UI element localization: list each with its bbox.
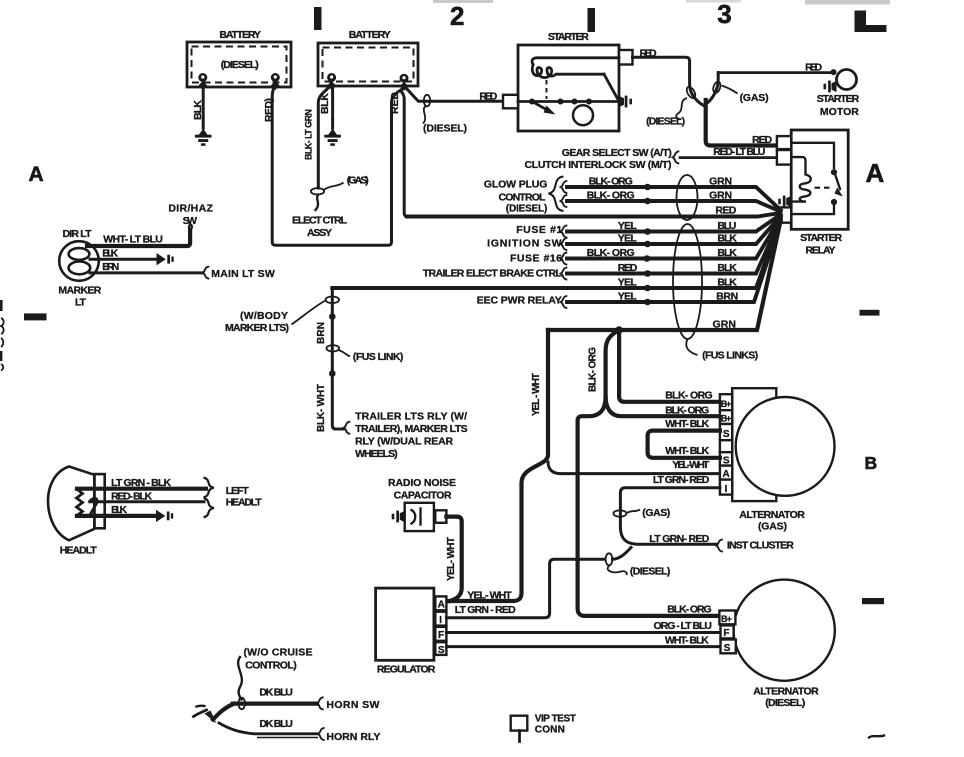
svg-text:GRN: GRN [709,176,732,188]
loop w/body marker lts [326,297,340,304]
regulator pin F [435,627,446,641]
wire LT GRN-RED alternator I [620,488,720,544]
wire row R2 glow plug GRN [561,195,568,207]
svg-text:(GAS): (GAS) [347,175,369,187]
starter input tab [503,95,518,109]
wire row R1 glow plug GRN [561,181,568,193]
gas alternator pin S 2 [720,452,732,465]
svg-text:YEL- WHT: YEL- WHT [672,459,710,471]
svg-text:STARTER: STARTER [817,93,860,105]
wire RED-BLK headlight [90,500,204,503]
svg-text:ASSY: ASSY [307,227,332,239]
VIP test connector [511,714,576,742]
svg-text:RED: RED [805,62,822,74]
wire WHT-BLK S loop [648,431,720,458]
gas alternator pin blank [720,440,732,452]
brace left headlt [204,478,214,498]
svg-text:BATTERY: BATTERY [349,29,391,41]
svg-text:YEL: YEL [618,291,638,303]
battery B2 negative terminal [327,73,336,90]
relay blade [836,176,841,190]
svg-text:WHT- BLK: WHT- BLK [665,445,709,457]
svg-text:B+: B+ [721,399,732,409]
svg-text:CONTROL): CONTROL) [245,660,297,672]
svg-text:RED: RED [752,134,772,146]
capacitor symbol [412,510,416,524]
wire WHT-LT BLU to dir/haz sw [87,230,190,246]
svg-text:GLOW PLUG: GLOW PLUG [484,179,548,191]
right margin dash 2 [862,598,884,604]
svg-text:DIR LT: DIR LT [63,228,93,240]
svg-text:RLY (W/DUAL REAR: RLY (W/DUAL REAR [355,436,453,448]
svg-text:A: A [29,163,44,186]
svg-text:BLK: BLK [717,262,737,274]
loop (GAS) on branch [712,81,722,94]
loop on horn wire [238,698,245,710]
relay internal battery line [791,143,834,168]
relay dashed link [815,187,832,189]
wire YEL-WHT from capacitor [446,517,461,601]
diesel alternator pin F [721,625,734,638]
svg-text:RADIO NOISE: RADIO NOISE [388,477,456,489]
svg-text:YEL: YEL [618,277,638,289]
wire regulator F ORG-LT BLU [446,631,720,634]
svg-text:BLK- ORG: BLK- ORG [667,604,712,616]
trunk YEL-WHT vertical [446,330,548,601]
svg-text:BRN: BRN [102,261,119,273]
svg-text:(W/BODY: (W/BODY [240,310,288,322]
svg-text:ALTERNATOR: ALTERNATOR [753,686,819,698]
wire row R8 marker lights BLK [332,220,780,288]
svg-text:YEL- WHT: YEL- WHT [446,537,457,581]
svg-text:RED- BLK: RED- BLK [111,491,152,503]
svg-text:IGNITION SW: IGNITION SW [487,238,562,250]
starter motor [837,70,857,90]
relay tab output [777,207,791,222]
svg-text:(W/O CRUISE: (W/O CRUISE [244,647,313,659]
headlight dome [48,467,94,541]
gas alternator [720,388,835,532]
trunk BLK-ORG branch to diesel alternator [578,398,720,616]
svg-text:BLK- ORG: BLK- ORG [587,247,635,259]
svg-text:GRN: GRN [709,190,732,202]
svg-text:2: 2 [450,1,464,31]
svg-text:DK BLU: DK BLU [259,718,293,730]
svg-text:LT GRN - RED: LT GRN - RED [455,604,516,616]
svg-text:WHEELS): WHEELS) [355,448,398,460]
svg-text:BLK: BLK [102,248,118,260]
svg-text:A: A [723,469,730,480]
starter motor winding circle [573,105,593,125]
svg-text:F: F [723,628,729,639]
wire LT GRN-BLK headlight [77,487,206,491]
svg-text:FUSE #1: FUSE #1 [516,224,562,236]
battery B1 ground wire BLK [202,85,205,128]
svg-text:HEADLT: HEADLT [60,545,98,557]
trunk BLK-ORG to gas alternator B+1 [619,330,720,402]
svg-text:VIP TEST: VIP TEST [535,714,576,725]
wire DK BLU horn rly [219,723,318,734]
loop (GAS) on I wire [613,510,626,516]
svg-text:WHT- BLK: WHT- BLK [665,418,709,430]
regulator pin S [435,642,446,655]
svg-text:BATTERY: BATTERY [219,29,261,41]
chassis connector at relay coil [778,196,791,208]
svg-text:CLUTCH INTERLOCK SW (M/T): CLUTCH INTERLOCK SW (M/T) [525,159,672,171]
wire RED-LT BLU to relay switch tab [680,156,777,159]
svg-text:ORG - LT BLU: ORG - LT BLU [654,620,713,632]
svg-text:LT: LT [75,297,87,309]
wire RED starter output [633,57,704,105]
branch YEL-WHT to alternator A [548,462,720,474]
svg-text:B: B [865,453,878,473]
fusible link ellipse small [677,175,698,220]
svg-text:ALTERNATOR: ALTERNATOR [739,509,805,521]
left edge stray glyphs [0,300,3,311]
wire BLK-LT GRN to elect ctrl assy [318,86,330,188]
svg-text:(GAS): (GAS) [642,507,670,519]
relay coil [791,157,811,202]
junction dot GRN/BLK-ORG [615,326,623,334]
wire row R3 battery feed RED [407,213,781,217]
ground (battery B2) [324,129,341,146]
ground (battery B1) [195,129,212,146]
wire regulator S WHT-BLK [446,645,720,648]
svg-text:DIR/HAZ: DIR/HAZ [168,203,213,215]
filament zigzag [77,489,83,516]
loop (DIESEL) on wire to starter [424,95,430,107]
svg-text:BLK: BLK [192,100,204,120]
wire row R7 trailer elect brake ctrl BLK [561,267,568,279]
svg-text:B+: B+ [721,414,732,424]
chassis connector at starter case [619,96,632,108]
svg-text:GRN: GRN [713,319,737,331]
svg-text:BRN: BRN [716,291,738,303]
radio noise capacitor [388,477,462,601]
svg-text:3: 3 [717,0,731,29]
wire (GAS) branch down to relay feed [707,73,719,104]
svg-text:MARKER LTS): MARKER LTS) [225,322,289,334]
corner mark L [855,11,867,33]
leader to FUS LINKS label [686,339,697,355]
svg-text:S: S [438,645,445,656]
svg-text:BLK- ORG: BLK- ORG [589,176,633,188]
wire diesel branch merge to inst cluster wire [613,548,632,560]
battery B1 negative terminal [198,73,207,90]
wire BRN vertical [332,288,343,429]
wire RED battery B2 down to fuse feed row [401,89,407,217]
svg-text:ELECT CTRL: ELECT CTRL [292,215,348,227]
svg-text:(GAS): (GAS) [740,92,769,104]
svg-text:HEADLT: HEADLT [226,497,263,509]
svg-text:INST CLUSTER: INST CLUSTER [727,540,794,552]
diesel alternator [719,580,834,709]
starter solenoid coil [532,65,604,78]
squiggle inst cluster [716,539,723,551]
wire row R9 EEC pwr relay BRN [561,296,568,308]
wire LT GRN-RED regulator I [446,559,605,617]
svg-text:CONN: CONN [535,725,565,736]
battery B1 positive terminal [271,73,280,90]
gas alternator pin A [720,466,732,480]
capacitor output tab [435,510,446,523]
stub wires lower left [194,710,207,717]
wire RED battery B2 to starter [406,88,503,101]
svg-text:BRN: BRN [316,322,327,344]
trunk wire to starter relay battery tab [706,100,777,146]
contact dots [529,99,535,105]
loop (DIESEL) [606,553,613,565]
svg-text:BLK- WHT: BLK- WHT [316,384,327,432]
wire row R4 fuse 1 BLU [561,225,568,237]
battery B2 (gas) [318,29,418,86]
svg-text:S: S [724,643,731,654]
svg-text:MAIN LT SW: MAIN LT SW [211,268,275,280]
wire BLK headlight ground [77,514,156,518]
fusible link ellipse large [673,224,702,339]
wire row R10 GRN trunk [548,221,781,330]
svg-text:BLK: BLK [717,247,737,259]
svg-text:MARKER: MARKER [58,285,101,297]
svg-text:SW: SW [183,215,198,227]
tick bar 1 [314,7,322,30]
svg-text:S: S [723,429,730,440]
wire DK BLU horn sw [233,701,317,705]
svg-text:DK BLU: DK BLU [259,687,293,699]
left margin dash [24,313,47,320]
marker bulb upper [69,248,90,260]
svg-text:(DIESEL): (DIESEL) [221,59,259,71]
svg-text:BLK: BLK [111,504,127,516]
svg-text:MOTOR: MOTOR [820,106,859,118]
svg-text:TRAILER), MARKER LTS: TRAILER), MARKER LTS [355,423,468,435]
svg-text:LEFT: LEFT [226,485,250,497]
wire RED battery B1 to battery B2 link [272,87,401,245]
svg-text:RELAY: RELAY [806,245,836,257]
svg-text:RED: RED [479,91,497,103]
diesel alternator pin S [721,640,736,654]
wire RED to starter motor [718,71,833,74]
svg-text:YEL- WHT: YEL- WHT [467,590,512,602]
wire BLK to chassis ground [90,258,156,261]
svg-text:RED): RED) [263,98,275,122]
svg-text:CAPACITOR: CAPACITOR [394,490,452,502]
svg-text:YEL - WHT: YEL - WHT [531,373,542,416]
svg-text:(GAS): (GAS) [758,521,787,533]
right margin dash 1 [860,310,880,316]
svg-text:EEC PWR RELAY: EEC PWR RELAY [477,295,562,307]
wire row R5 ignition sw BLK [561,238,568,250]
svg-text:BLK: BLK [717,277,737,289]
svg-text:YEL: YEL [618,220,638,232]
svg-text:LT GRN- RED: LT GRN- RED [653,474,710,486]
wire row R6 fuse 16 BLK [561,252,568,264]
svg-text:A: A [866,158,885,188]
junction dot at motor [831,69,837,75]
left headlight [48,467,105,557]
relay tab battery [777,136,791,149]
svg-text:STARTER: STARTER [548,31,589,43]
starter internal feed wire [532,58,619,65]
svg-text:(FUS LINKS): (FUS LINKS) [702,350,758,362]
gas alternator pin B+ 1 [720,394,732,410]
svg-text:CONTROL: CONTROL [499,192,547,204]
svg-text:(DIESEL): (DIESEL) [646,116,685,128]
svg-text:LT GRN- RED: LT GRN- RED [649,533,709,545]
svg-text:(FUS LINK): (FUS LINK) [353,351,404,363]
filament 2 [90,498,98,514]
wavy leader [238,657,242,700]
svg-text:REGULATOR: REGULATOR [377,664,436,676]
svg-text:RED: RED [389,92,401,114]
svg-text:I: I [439,615,442,626]
regulator pin A [435,596,446,610]
svg-text:BLK- ORG: BLK- ORG [587,190,635,202]
loop (GAS) on BLK-LT GRN wire [311,188,324,194]
svg-text:RED: RED [640,48,657,60]
battery B2 positive terminal [400,74,409,91]
svg-text:TRAILER ELECT BRAKE CTRL: TRAILER ELECT BRAKE CTRL [423,268,563,280]
svg-text:B+: B+ [721,614,732,624]
starter relay [777,130,848,257]
horn circuit [194,647,381,744]
marker light circle [59,241,99,281]
svg-text:WHT- LT BLU: WHT- LT BLU [103,234,163,246]
starter output tab [619,50,633,65]
relay output line [791,205,834,214]
squiggle trailer lts rly [344,422,351,434]
svg-text:RED: RED [715,205,736,217]
loop (DIESEL) on starter output [685,85,697,99]
svg-text:BLK- LT GRN: BLK- LT GRN [304,109,314,160]
svg-text:WHT- BLK: WHT- BLK [665,635,709,647]
svg-text:FUSE #16: FUSE #16 [510,253,562,265]
svg-text:STARTER: STARTER [800,232,842,244]
battery B1 (diesel) [187,29,291,87]
starter main contact line [518,100,617,103]
svg-text:TRAILER LTS RLY (W/: TRAILER LTS RLY (W/ [355,411,467,423]
svg-text:BLK: BLK [717,233,737,245]
svg-text:LT GRN - BLK: LT GRN - BLK [111,477,171,489]
svg-text:YEL: YEL [618,233,638,245]
starter box [503,31,633,131]
gas alternator pin B+ 2 [720,410,732,424]
svg-text:A: A [438,600,445,611]
diesel alternator pin B+ [719,611,735,625]
svg-text:BLU: BLU [717,220,736,232]
svg-text:HORN SW: HORN SW [326,699,379,711]
svg-text:F: F [438,630,444,641]
svg-text:BLK- ORG: BLK- ORG [588,347,599,392]
battery B2 ground wire BLK [331,85,334,128]
svg-text:(DIESEL): (DIESEL) [630,566,671,578]
chassis connector at capacitor [392,511,405,523]
bottom right small mark [869,736,884,738]
svg-text:GEAR SELECT SW (A/T): GEAR SELECT SW (A/T) [562,147,672,159]
regulator [376,588,447,675]
dashed actuator link [546,80,548,99]
squiggle gear select [673,151,680,163]
gas alternator pin I [720,480,732,495]
svg-text:RED- LT BLU: RED- LT BLU [713,146,765,158]
svg-text:BLK- ORG: BLK- ORG [665,405,709,417]
gas alternator pin S 1 [720,424,732,440]
relay tab ignition [777,150,791,165]
svg-text:(DIESEL): (DIESEL) [765,697,805,709]
trunk BLK-ORG curve branch [606,330,720,416]
svg-text:(DIESEL): (DIESEL) [506,204,548,215]
wire BRN to main light switch [90,271,203,274]
regulator pin I [435,612,446,626]
svg-text:HORN RLY: HORN RLY [326,731,380,743]
svg-text:(DIESEL): (DIESEL) [423,123,467,135]
switch blade with arrow [532,102,549,112]
svg-text:I: I [725,484,728,495]
headlight housing [94,474,104,528]
starter internal diagonal to case [604,74,619,100]
svg-text:BLK- ORG: BLK- ORG [665,390,713,402]
chassis connector at motor [824,81,837,93]
tick bar 2 [588,8,596,32]
brace glow plug [549,177,564,212]
svg-text:RED: RED [618,262,638,274]
loop fus link [326,345,339,351]
marker bulb lower [69,262,91,275]
